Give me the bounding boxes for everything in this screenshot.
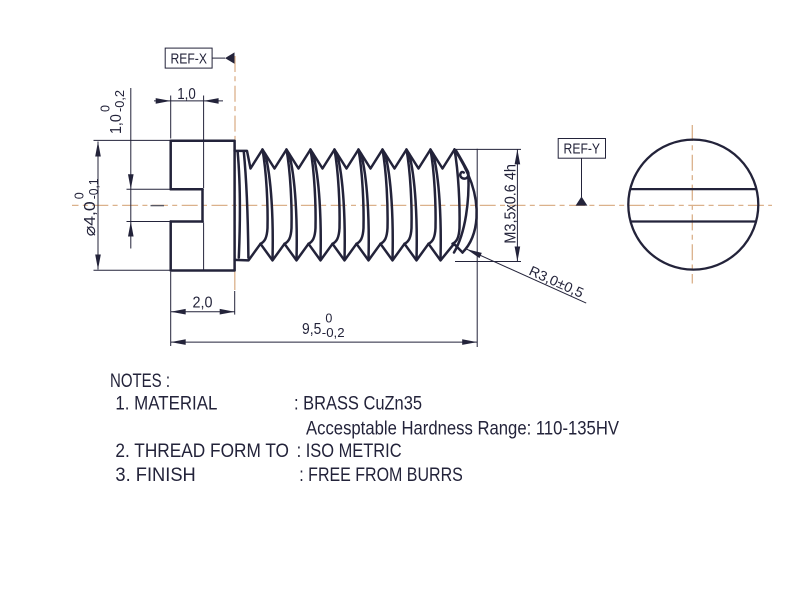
- svg-text:0: 0: [325, 312, 332, 326]
- svg-text:M3,5x0.6 4h: M3,5x0.6 4h: [502, 164, 519, 244]
- svg-text:-0,2: -0,2: [322, 326, 345, 340]
- vertical centerline of end view circle: [691, 125, 693, 284]
- extension line for slot width right: [203, 96, 205, 189]
- extension line for head diameter bottom: [94, 269, 171, 271]
- thread crest helix line B5: [313, 154, 321, 260]
- end view circle (head diameter): [628, 140, 758, 270]
- svg-text:: FREE FROM BURRS: : FREE FROM BURRS: [299, 464, 463, 486]
- end view slot lower chord: [631, 220, 756, 222]
- svg-text:3. FINISH: 3. FINISH: [115, 464, 195, 486]
- extension line for overall length right: [476, 149, 478, 347]
- thread crest helix line A5: [357, 150, 364, 244]
- rotated dimension text 1,0 0/-0,2 (slot depth): [99, 90, 128, 134]
- thread crest helix line B7: [361, 154, 369, 260]
- thread crest helix line B2: [244, 152, 249, 258]
- svg-text:2. THREAD FORM TO: 2. THREAD FORM TO: [115, 440, 289, 462]
- thread crest helix line B10: [433, 154, 441, 260]
- arrow at left of head height dim (pointing left): [171, 309, 186, 315]
- end view slot upper chord: [630, 188, 756, 190]
- thread crest helix line B3: [265, 154, 273, 260]
- extension line for head height left: [170, 272, 172, 346]
- thread crest helix line A7: [405, 150, 412, 244]
- extension line for head height right: [234, 291, 236, 315]
- main horizontal centerline of screw axis: [72, 204, 772, 206]
- svg-text:1. MATERIAL: 1. MATERIAL: [115, 393, 217, 415]
- arrow at right of overall length dim (pointing right): [462, 339, 477, 345]
- svg-text:REF-X: REF-X: [170, 51, 207, 67]
- arrow at top of head diameter dim (pointing up): [95, 142, 101, 157]
- projection line below slot right edge: [203, 223, 205, 271]
- svg-text:: BRASS CuZn35: : BRASS CuZn35: [294, 393, 422, 415]
- thread crest helix line A9: [453, 150, 460, 244]
- rotated leader text R3,0 +/- 0,5: [527, 262, 587, 300]
- arrow at bottom of thread dim (pointing down): [515, 247, 521, 262]
- REF-X datum centerline solid segment below head: [234, 272, 236, 291]
- leader line for tip radius R3,0: [467, 249, 587, 303]
- extension line for slot depth top: [127, 188, 171, 190]
- screwdriver slot upper line (side view): [171, 188, 203, 191]
- thread bottom zigzag profile: [235, 244, 463, 261]
- REF-Y datum triangle (apex up, base on centerline): [576, 197, 588, 206]
- thread crest helix line A3: [309, 150, 316, 244]
- arrow at right of head height dim (pointing right): [220, 309, 235, 315]
- dimension line for overall length 9,5: [171, 341, 478, 343]
- svg-text:-0,2: -0,2: [113, 90, 127, 112]
- svg-text:0: 0: [72, 192, 86, 199]
- thread crest helix line A6: [381, 150, 388, 244]
- REF-X datum label box: [165, 48, 212, 68]
- REF-Y leader line from box to datum triangle: [581, 158, 583, 197]
- thread crest helix line A8: [429, 150, 436, 244]
- REF-X datum triangle (apex left, base on datum line): [225, 52, 235, 63]
- extension line for thread top: [455, 148, 521, 150]
- extension line for thread bottom: [455, 261, 521, 263]
- svg-text:REF-Y: REF-Y: [564, 142, 601, 158]
- svg-text:0: 0: [99, 105, 113, 112]
- dimension line for thread spec (vertical): [516, 149, 518, 261]
- dimension line for slot width 1,0: [154, 100, 223, 102]
- rotated dimension text M3,5x0.6 4h: [502, 164, 519, 244]
- arrow left of slot width dim (pointing right): [156, 98, 171, 104]
- svg-text:2,0: 2,0: [193, 295, 213, 312]
- dimension line for head diameter (vertical): [97, 142, 99, 270]
- svg-text:-0,1: -0,1: [87, 178, 101, 199]
- REF-X leader line from box to datum triangle: [212, 57, 225, 59]
- extension line for slot width left: [170, 96, 172, 139]
- thread crest helix line A4: [333, 150, 340, 244]
- leader arrowhead (pointing up-left at tip): [467, 249, 482, 258]
- arrow above slot depth (pointing down): [128, 174, 134, 189]
- dimension line for head height 2,0: [171, 311, 235, 313]
- thread crest helix line B9: [409, 154, 417, 260]
- arrow below slot depth (pointing up): [128, 222, 134, 237]
- svg-text:1,0: 1,0: [108, 114, 125, 134]
- thread top zigzag profile: [235, 150, 455, 169]
- screwdriver slot bottom edge (side view): [201, 189, 204, 221]
- thread rounded tip arc R3.0: [455, 150, 477, 253]
- arrow at bottom of head diameter dim (pointing down): [95, 255, 101, 270]
- svg-text:9,5: 9,5: [302, 321, 321, 338]
- thread runout curl at tip: [456, 151, 468, 179]
- extension line for head diameter top: [94, 139, 171, 141]
- thread crest helix line B8: [385, 154, 393, 260]
- dark centerline dash inside slot: [151, 205, 165, 207]
- arrow at left of overall length dim (pointing left): [171, 339, 186, 345]
- thread crest helix line B1: [238, 151, 240, 257]
- svg-text:⌀4,0: ⌀4,0: [82, 201, 99, 236]
- thread inner helix line at tip: [454, 175, 469, 253]
- extension line for slot depth bottom: [127, 221, 171, 223]
- screw head outline (side view, left edge open at slot): [171, 141, 235, 271]
- arrow right of slot width dim (pointing left): [204, 98, 219, 104]
- dimension line for slot depth (vertical, continuous): [130, 88, 132, 249]
- REF-X datum centerline (vertical, head/shank interface): [234, 56, 236, 271]
- rotated dimension text diameter 4,0 0/-0,1: [72, 178, 101, 236]
- REF-Y datum label box: [558, 139, 605, 159]
- svg-text:NOTES :: NOTES :: [110, 370, 170, 392]
- svg-text:Accesptable Hardness Range: 11: Accesptable Hardness Range: 110-135HV: [306, 418, 619, 440]
- svg-text:R3,0±0,5: R3,0±0,5: [527, 262, 587, 300]
- arrow at top of thread dim (pointing up): [515, 149, 521, 164]
- thread crest helix line A1: [261, 150, 268, 244]
- svg-text:1,0: 1,0: [177, 86, 196, 103]
- thread crest helix line B4: [289, 154, 297, 260]
- thread crest helix line B6: [337, 154, 345, 260]
- svg-text:: ISO METRIC: : ISO METRIC: [297, 440, 402, 462]
- screwdriver slot lower line (side view): [171, 220, 203, 223]
- thread crest helix line A2: [285, 150, 292, 244]
